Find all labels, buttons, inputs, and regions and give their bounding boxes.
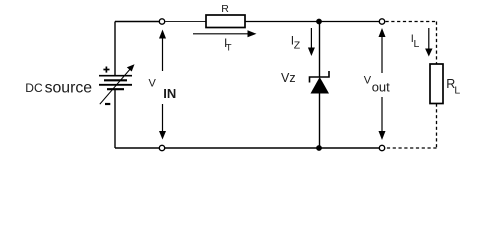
wire: dashed top to load RL xyxy=(386,21,437,23)
resistor RL (load) xyxy=(430,64,443,104)
annotation: Vout double arrow (upper half) xyxy=(379,28,386,73)
wire: dashed vertical down to RL top xyxy=(436,22,438,65)
battery + polarity mark xyxy=(103,67,109,73)
wire: circle to resistor R xyxy=(165,21,206,23)
wire: top rail left segment xyxy=(115,21,159,23)
annotation: IZ current arrow xyxy=(308,28,315,56)
zener diode body (filled triangle, anode below) xyxy=(311,77,330,94)
annotation: IL current arrow xyxy=(425,28,432,57)
wire: left rail top (to battery +) xyxy=(114,22,116,76)
variable-source diagonal arrow xyxy=(100,64,135,104)
battery plate long (+) xyxy=(99,75,132,77)
svg-text:Vz: Vz xyxy=(281,71,296,85)
resistor R xyxy=(206,15,245,28)
node: input terminal - (open circle) xyxy=(159,145,164,150)
junction node (top of zener) xyxy=(316,19,322,25)
zener diode: bottom lead wire xyxy=(319,94,321,149)
battery plate short (-) xyxy=(104,79,127,81)
battery - polarity mark xyxy=(105,103,110,105)
svg-text:out: out xyxy=(372,80,390,95)
svg-text:V: V xyxy=(149,78,157,90)
svg-text:Z: Z xyxy=(294,40,301,52)
wire: left rail bottom (battery - to bottom rail) xyxy=(114,89,116,148)
svg-text:IN: IN xyxy=(163,86,176,101)
svg-text:L: L xyxy=(454,85,460,97)
svg-text:DC: DC xyxy=(25,81,43,95)
annotation: VIN up arrow xyxy=(159,30,166,72)
svg-text:T: T xyxy=(226,42,232,53)
wire: resistor to zener junction xyxy=(245,21,319,23)
wire: dashed bottom to output - terminal xyxy=(386,147,437,149)
svg-text:V: V xyxy=(364,75,372,87)
zener diode: top lead wire xyxy=(319,22,321,78)
annotation: IT current arrow xyxy=(193,30,257,37)
junction node (bottom of zener) xyxy=(316,145,322,151)
svg-text:R: R xyxy=(221,3,229,15)
zener diode cathode bar with bent ends xyxy=(310,71,330,83)
node: output terminal + (open circle) xyxy=(379,19,384,24)
annotation: Vout double arrow (lower half) xyxy=(379,97,386,140)
battery plate short (-) xyxy=(107,88,124,90)
battery / DC source plates xyxy=(99,76,132,90)
wire: dashed vertical RL bottom down xyxy=(436,104,438,149)
svg-text:source: source xyxy=(45,80,93,97)
node: input terminal + (open circle) xyxy=(159,19,164,24)
node: output terminal - (open circle) xyxy=(379,145,384,150)
wire: bottom rail xyxy=(115,147,379,149)
wire: junction to output terminal xyxy=(319,21,379,23)
svg-text:L: L xyxy=(414,38,420,50)
battery plate long (+) xyxy=(99,84,132,86)
annotation: VIN down arrow xyxy=(159,104,166,140)
